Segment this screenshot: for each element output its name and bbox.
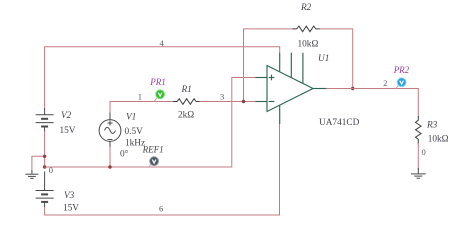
svg-text:2: 2 — [383, 78, 387, 88]
junction dot net 0 — [43, 165, 46, 168]
battery V2 — [36, 108, 54, 132]
svg-text:1: 1 — [138, 92, 142, 102]
svg-text:6: 6 — [159, 204, 163, 214]
svg-text:PR1: PR1 — [149, 77, 166, 87]
svg-text:2kΩ: 2kΩ — [178, 111, 194, 121]
junction dot battery/ground — [43, 155, 46, 158]
svg-text:0.5V: 0.5V — [125, 127, 144, 137]
svg-text:15V: 15V — [63, 203, 79, 213]
wire output net 2 — [326, 89, 418, 118]
junction dot inverting input — [242, 100, 245, 103]
resistor R3 vertical — [416, 116, 422, 144]
svg-text:REF1: REF1 — [142, 145, 164, 155]
wire feedback right vertical to output — [320, 29, 353, 89]
wire V2 bottom to junction — [44, 131, 46, 167]
wire net 0 horizontal to op-amp plus input — [45, 78, 256, 168]
wire net 1 — [110, 102, 173, 113]
svg-text:10kΩ: 10kΩ — [428, 134, 449, 144]
svg-text:R1: R1 — [181, 85, 192, 95]
svg-text:3: 3 — [220, 91, 224, 101]
junction dot output node — [351, 87, 354, 90]
probe PR1 — [154, 98, 157, 102]
resistor R2 — [293, 26, 321, 32]
junction dot V1 on net 0 — [108, 165, 111, 168]
wire net 4 top horizontal — [45, 47, 280, 109]
svg-text:V1: V1 — [126, 113, 136, 123]
svg-text:V3: V3 — [64, 191, 75, 201]
ground left — [25, 170, 38, 178]
resistor R1 — [173, 99, 201, 105]
probe REF1 — [149, 164, 152, 167]
svg-text:V2: V2 — [61, 111, 72, 121]
svg-text:U1: U1 — [318, 54, 329, 64]
svg-text:15V: 15V — [60, 126, 76, 136]
svg-text:0: 0 — [422, 147, 426, 157]
probe PR2 — [396, 85, 399, 88]
wire V1 top to net 1 — [109, 147, 111, 167]
wire net 3 to minus input — [200, 101, 256, 103]
wire feedback left vertical — [244, 29, 295, 102]
op-amp U1 — [255, 53, 327, 124]
svg-text:R3: R3 — [426, 121, 438, 131]
svg-text:0°: 0° — [120, 149, 129, 160]
svg-text:R2: R2 — [300, 3, 312, 13]
wire branch to left ground — [32, 156, 45, 171]
AC source V1 — [99, 112, 121, 148]
ground right — [411, 168, 426, 178]
battery V3 — [36, 172, 54, 208]
svg-text:10kΩ: 10kΩ — [298, 39, 319, 49]
svg-text:PR2: PR2 — [393, 65, 410, 75]
svg-text:UA741CD: UA741CD — [319, 118, 360, 128]
wire net 6 bottom — [45, 124, 280, 215]
wire R3 to ground — [417, 143, 419, 170]
